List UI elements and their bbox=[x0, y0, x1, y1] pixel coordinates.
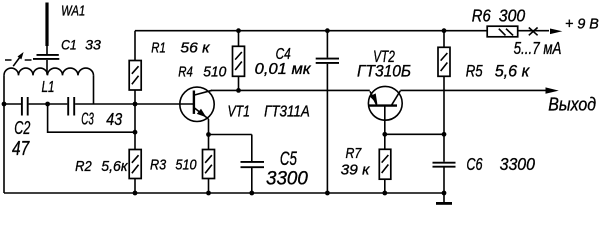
svg-text:3300: 3300 bbox=[266, 168, 308, 189]
svg-text:R3: R3 bbox=[150, 156, 167, 173]
svg-text:R1: R1 bbox=[151, 41, 166, 57]
svg-text:Выход: Выход bbox=[548, 94, 596, 115]
svg-text:ГТ311А: ГТ311А bbox=[264, 104, 310, 121]
svg-text:WA1: WA1 bbox=[61, 4, 85, 20]
svg-text:C1: C1 bbox=[61, 38, 77, 53]
svg-text:C5: C5 bbox=[280, 149, 297, 170]
svg-text:VT1: VT1 bbox=[228, 104, 250, 121]
svg-text:300: 300 bbox=[499, 7, 526, 26]
svg-text:C3: C3 bbox=[81, 110, 94, 129]
svg-text:33: 33 bbox=[85, 38, 101, 53]
svg-text:C6: C6 bbox=[466, 154, 482, 174]
svg-text:47: 47 bbox=[12, 137, 30, 160]
svg-text:R4: R4 bbox=[178, 65, 193, 81]
svg-text:0,01 мк: 0,01 мк bbox=[255, 61, 312, 78]
svg-text:3300: 3300 bbox=[500, 154, 536, 174]
svg-text:ГТ310Б: ГТ310Б bbox=[357, 61, 411, 80]
svg-text:5...7 мА: 5...7 мА bbox=[514, 38, 562, 58]
svg-text:43: 43 bbox=[106, 110, 122, 129]
svg-text:56 к: 56 к bbox=[180, 41, 211, 57]
svg-text:5,6 к: 5,6 к bbox=[495, 62, 531, 80]
svg-text:510: 510 bbox=[175, 157, 197, 174]
svg-text:5,6к: 5,6к bbox=[101, 158, 128, 175]
svg-text:L1: L1 bbox=[42, 79, 55, 96]
svg-text:+ 9 В: + 9 В bbox=[565, 16, 599, 32]
svg-text:R7: R7 bbox=[346, 145, 362, 162]
svg-text:C2: C2 bbox=[14, 117, 30, 138]
svg-text:R5: R5 bbox=[466, 62, 484, 80]
svg-text:39 к: 39 к bbox=[341, 162, 371, 179]
svg-text:510: 510 bbox=[203, 65, 226, 81]
svg-text:R6: R6 bbox=[472, 7, 491, 26]
svg-text:R2: R2 bbox=[75, 158, 92, 175]
